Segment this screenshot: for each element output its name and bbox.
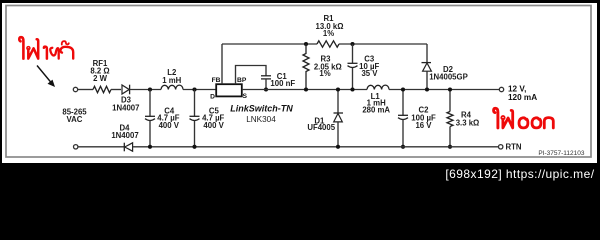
diode D2 <box>426 44 428 63</box>
resistor R3 <box>303 44 309 90</box>
schematic border frame <box>6 6 591 158</box>
node C2 top <box>401 87 405 91</box>
inductor L2 <box>161 85 183 89</box>
thai glyph o ang 1 (output word) <box>519 118 528 128</box>
wire L2 to IC <box>183 89 216 91</box>
svg-text:400 V: 400 V <box>203 121 224 130</box>
output terminal <box>499 87 503 91</box>
capacitor C1 <box>261 75 271 77</box>
svg-text:16 V: 16 V <box>415 121 432 130</box>
thai glyph fo fan loop (input word) <box>27 47 30 50</box>
wire C1 to S rail <box>265 79 267 90</box>
svg-text:S: S <box>243 93 248 100</box>
svg-text:RTN: RTN <box>506 143 522 152</box>
node C5 bottom <box>192 145 196 149</box>
svg-text:UF4005: UF4005 <box>307 123 335 132</box>
resistor R1 <box>317 41 339 47</box>
svg-text:1 mH: 1 mH <box>162 76 181 85</box>
svg-text:1N4007: 1N4007 <box>111 131 138 140</box>
input terminal bottom <box>74 145 78 149</box>
svg-text:35 V: 35 V <box>361 69 378 78</box>
inductor L1 <box>367 85 389 89</box>
thai glyph sara e (input word) <box>44 47 47 59</box>
diode D1 <box>337 90 339 114</box>
wire BP riser <box>236 66 267 85</box>
RTN terminal <box>499 145 503 149</box>
svg-text:120 mA: 120 mA <box>508 93 537 102</box>
wire bottom rail left <box>78 146 124 148</box>
red thai annotation input <box>19 37 73 58</box>
svg-text:BP: BP <box>237 77 247 84</box>
thai glyph sara aa (input word) <box>60 47 73 59</box>
node C5 junction top <box>192 87 196 91</box>
svg-text:1N4005GP: 1N4005GP <box>429 73 468 82</box>
svg-text:[698x192] https://upic.me/: [698x192] https://upic.me/ <box>445 167 594 181</box>
node C3 top <box>350 42 354 46</box>
thai glyph fo fan (output word) <box>503 110 513 128</box>
node D1 top <box>336 87 340 91</box>
wire bottom rail <box>133 146 499 148</box>
capacitor C4 <box>149 90 151 117</box>
wire top rail terminal to RF1 <box>78 89 93 91</box>
node R3 bottom <box>304 87 308 91</box>
node C3 bottom <box>350 87 354 91</box>
capacitor C3 <box>352 44 354 63</box>
node C4 junction top <box>148 87 152 91</box>
wire feedback line left <box>222 43 317 45</box>
thai glyph fo fan (input word) <box>28 39 38 58</box>
wire D3 to L2 <box>130 89 161 91</box>
svg-text:280 mA: 280 mA <box>362 106 390 115</box>
white schematic sheet <box>2 3 597 163</box>
red thai annotation output <box>494 108 554 128</box>
node C1 bottom <box>264 87 268 91</box>
wire S rail <box>242 89 367 91</box>
svg-text:FB: FB <box>212 77 221 84</box>
capacitor C5 <box>194 90 196 117</box>
watermark bar <box>0 163 600 185</box>
node C4 bottom <box>148 145 152 149</box>
diode D4 <box>123 143 125 152</box>
svg-text:1N4007: 1N4007 <box>112 103 139 112</box>
node R3 top <box>304 42 308 46</box>
page background <box>0 0 600 185</box>
svg-text:LinkSwitch-TN: LinkSwitch-TN <box>230 103 293 113</box>
svg-text:VAC: VAC <box>67 115 83 124</box>
wire feedback line right <box>339 43 427 45</box>
arrow annotation <box>37 66 55 88</box>
svg-text:1%: 1% <box>319 69 330 78</box>
svg-text:100 nF: 100 nF <box>270 79 295 88</box>
thai glyph sara ai (input word) <box>19 37 23 58</box>
capacitor C2 <box>402 90 404 116</box>
svg-text:LNK304: LNK304 <box>246 115 276 124</box>
input terminal top <box>73 87 77 91</box>
svg-text:1%: 1% <box>323 29 334 38</box>
svg-text:PI-3757-112103: PI-3757-112103 <box>538 150 585 157</box>
node R4 top <box>448 87 452 91</box>
thai glyph fo fan loop (output word) <box>501 116 504 119</box>
node D1 bottom <box>336 145 340 149</box>
svg-text:D: D <box>210 93 215 100</box>
wire output rail <box>389 89 499 91</box>
thai glyph o ang 2 (output word) <box>532 118 541 128</box>
thai glyph kho khai (input word) <box>50 48 58 59</box>
svg-text:2 W: 2 W <box>93 74 108 83</box>
resistor RF1 <box>93 86 111 92</box>
node R4 bottom <box>448 145 452 149</box>
thai glyph ko kai (output word) <box>544 118 553 128</box>
thai tone mark mai tho (input word) <box>62 41 69 44</box>
svg-text:3.3 kΩ: 3.3 kΩ <box>456 118 480 127</box>
wire RF1 to D3 <box>111 89 121 91</box>
node D2 bottom <box>425 87 429 91</box>
svg-text:400 V: 400 V <box>159 121 180 130</box>
wire FB riser <box>221 44 223 84</box>
node C2 bottom <box>401 145 405 149</box>
thai glyph sara ai (output word) <box>494 108 498 128</box>
resistor R4 <box>449 90 451 112</box>
op-amp U1 LinkSwitch-TN LNK304 body <box>216 84 242 96</box>
diode D3 <box>122 85 129 94</box>
